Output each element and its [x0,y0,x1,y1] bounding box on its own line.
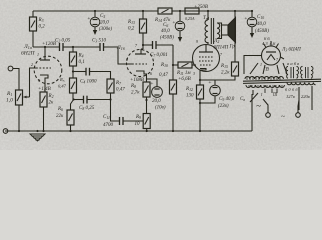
svg-text:40,0: 40,0 [257,22,266,27]
svg-text:2к: 2к [49,101,55,106]
svg-text:~: ~ [281,113,285,121]
svg-text:а а б в: а а б в [287,61,299,66]
input terminal [8,66,13,71]
primary winding row with taps [246,85,284,88]
voltage taps [298,87,300,110]
svg-text:9: 9 [196,39,198,44]
svg-text:40,0: 40,0 [161,29,170,34]
svg-text:+1,4В: +1,4В [38,87,51,92]
svg-text:20,0: 20,0 [100,21,109,26]
svg-text:+: + [150,81,154,87]
resistor R3 anode load stage 1 [30,11,46,47]
electrolytic C9 cathode bypass [199,79,235,109]
resistor R14 filter [154,8,172,24]
wire B+ top rail left segment [33,10,158,12]
svg-text:10: 10 [135,122,141,127]
capacitor C7 coupling to output [142,41,173,59]
svg-text:+250В: +250В [194,5,208,10]
capacitor C4 1000 [72,68,111,86]
resistor R9 10k column x146 [135,97,151,131]
electrolytic Ck bypass stage 2 [147,79,166,111]
capacitor C8 0,25 [74,96,112,112]
primary taps [264,89,266,94]
wire ground rail bottom [5,130,252,132]
wire interstage [73,46,100,48]
speaker Gr [222,18,236,50]
svg-text:R4: R4 [78,54,84,59]
wire rectifier filament legs [244,56,287,75]
ground terminal bottom-left [3,129,8,134]
core [210,18,212,44]
svg-text:R1: R1 [6,91,12,97]
paper background [0,0,322,150]
svg-text:0,1: 0,1 [79,60,85,65]
svg-text:8: 8 [126,57,128,62]
svg-text:1: 1 [260,62,262,67]
svg-text:R10: R10 [160,63,168,68]
HV winding hatch [247,77,280,81]
secondary winding [217,23,220,39]
svg-text:R8: R8 [130,84,136,89]
svg-text:+120В: +120В [42,42,56,47]
svg-text:3: 3 [38,78,40,83]
svg-text:+: + [244,16,248,22]
svg-text:+6,6В: +6,6В [178,77,191,82]
resistor R15 screen grid [216,10,239,80]
svg-text:130: 130 [186,94,194,99]
svg-text:Л1б: Л1б [116,45,126,51]
svg-text:1: 1 [37,52,39,57]
svg-text:0,2: 0,2 [128,27,135,32]
svg-text:+: + [172,20,176,26]
svg-text:Св: Св [240,97,245,102]
svg-text:+108В: +108В [130,78,144,83]
svg-text:+: + [87,16,91,22]
capacitor C2 coupling [55,39,73,52]
svg-text:(450В): (450В) [255,29,269,34]
resistor R4 [70,47,85,78]
heater winding b [301,67,314,79]
svg-text:(300в): (300в) [99,27,112,32]
node anode1 junction [44,46,46,48]
svg-text:C10: C10 [257,15,264,20]
core [243,79,321,81]
chassis ground symbol [30,134,45,141]
svg-text:4700: 4700 [103,123,114,128]
electrolytic C5 decoupling filter [87,10,112,35]
node +250V junction [207,10,209,12]
triode U1a (6N2P first half) [21,44,62,92]
mains terminals [263,99,300,121]
cathode resistor R2 stage 1 [38,87,54,131]
svg-text:3: 3 [193,71,195,76]
svg-text:0,47: 0,47 [159,73,168,78]
wire B+ top rail mid segment [172,10,185,12]
triode U1b (6N2P second half) [116,43,154,82]
svg-text:6П14П: 6П14П [214,46,229,51]
svg-text:6Н2П: 6Н2П [21,51,35,57]
svg-text:Гр: Гр [229,45,236,50]
node R4 junction [72,46,74,48]
svg-text:~: ~ [256,101,261,111]
primary winding [205,20,208,43]
svg-text:C6: C6 [163,23,168,28]
capacitor C3 coupling to grid 2 [92,39,132,65]
svg-text:1,0: 1,0 [6,98,13,104]
svg-text:0,47: 0,47 [116,88,125,93]
svg-text:R15: R15 [220,64,228,69]
junction dots on ground rail [18,130,201,132]
resistor R12 cathode output [185,85,204,131]
svg-text:(450В): (450В) [160,36,174,41]
svg-text:(10в): (10в) [155,106,166,111]
electrolytic C10 main filter [244,10,269,38]
svg-text:C5: C5 [100,14,105,19]
svg-text:Л1а: Л1а [23,44,32,50]
svg-text:22к: 22к [56,114,64,119]
svg-text:6: 6 [150,71,152,76]
svg-text:2,7к: 2,7к [131,91,140,96]
rectifier tube socket L3 [257,36,301,67]
capacitor C11 4700 [103,93,143,128]
cathode resistor R8 stage 2 [130,78,150,97]
svg-text:+: + [208,80,212,86]
resistor R11 1M horizontal [172,62,196,82]
wire input to R1 [13,69,19,91]
heater winding a [286,67,299,79]
svg-text:Ш: Ш [272,92,278,97]
power transformer Tr2 [240,61,321,110]
svg-text:0,2: 0,2 [39,25,46,30]
HV winding row [245,77,283,80]
svg-text:Л2: Л2 [213,39,219,44]
svg-text:R12: R12 [185,87,193,92]
svg-text:2,2к: 2,2к [221,71,230,76]
filament secondary row [287,83,316,85]
svg-text:20,0: 20,0 [152,99,161,104]
svg-text:R3: R3 [38,18,44,23]
fuse Pr1 [179,8,199,22]
svg-text:220в: 220в [301,94,310,99]
resistor R5 0,47 [70,78,77,101]
pentode U2 6P14P [193,39,229,85]
wire anode node stage 1 [33,46,59,48]
svg-text:R13: R13 [127,20,135,25]
resistor R13 anode load stage 2 [127,10,147,49]
resistor R6 22k [56,77,74,131]
potentiometer R1 [6,68,36,131]
svg-text:(23в): (23в) [218,104,229,109]
svg-text:2: 2 [31,62,33,67]
electrolytic C6 filter [160,11,185,42]
svg-text:R6: R6 [57,107,63,112]
svg-text:C11: C11 [103,115,110,120]
wire B+ top rail right segment [199,10,252,12]
resistor R10 grid leak output [159,45,177,131]
output transformer Tr1 [203,11,222,44]
svg-text:R2: R2 [48,94,54,99]
resistor R7 0,47 column x110 [107,79,125,93]
svg-text:127в: 127в [286,94,295,99]
svg-text:R9: R9 [135,115,141,120]
wire ground rail right riser [251,94,253,131]
